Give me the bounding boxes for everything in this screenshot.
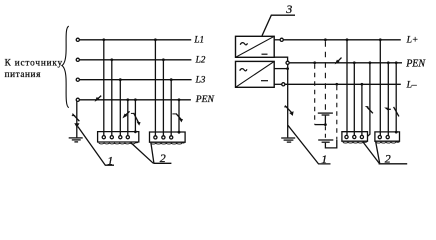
battery midpoint to cell 2 (dashed) [324,126,326,139]
line L1 [80,39,192,41]
junction midpoint [286,67,289,70]
leader from load B to label 2 (right) [376,141,380,163]
converter unit1 AC mark [240,43,247,45]
arrow on load B pin2 wire [384,108,391,111]
arrow on load B PE wire [394,107,399,117]
leader from load A to label 2 (right) [363,142,379,163]
converter unit2 AC mark [240,69,247,71]
junction PEN/battery midpoint [313,61,316,64]
converter unit1 DC mark [262,53,268,55]
wire L1 to load2 pin1 [154,40,156,136]
converter midpoint wire (unit2 plus) [274,68,287,70]
arrow on PEN line (left) [95,96,102,102]
arrow on grounding conductor (right) [284,106,295,116]
loadB pin2 [386,136,389,139]
junction L1/load1 [102,38,105,41]
terminal L1 [76,38,79,41]
load1 pin3 [119,136,122,139]
svg-text:L2: L2 [195,55,206,65]
junction L3/load2 [170,78,173,81]
battery midpoint wire [324,116,326,125]
grounding conductor (right) [287,64,289,137]
battery cell 2 [318,140,333,142]
wire L1 to load1 pin1 [103,40,105,136]
label "К источнику питания" [5,58,63,79]
ground electrode 1 (left) [69,138,83,142]
junction PEN/loadB PE [395,61,398,64]
line L3 [80,79,192,81]
junction load1 enclosure [134,130,137,133]
load2 pin3 [170,136,173,139]
terminal PEN [76,98,79,101]
junction load2 enclosure [178,131,181,134]
junction L+/loadB [379,38,382,41]
svg-text:1: 1 [107,153,113,167]
junction PEN/load1 pin4 [126,98,129,101]
underline of label 2 (left) [153,162,171,164]
ground electrode 1 (right) [281,138,295,142]
junction L2/load2 [162,58,165,61]
loadA pin3 [360,135,363,138]
junction loadB enclosure [395,131,398,134]
arrow on grounding conductor (left) [72,114,80,128]
arrow on load A PE wire [365,106,373,113]
load 2 (exposed conductive part, left box 2) [150,132,186,144]
junction L+/battery [324,38,327,41]
loadA pin1 [345,135,348,138]
junction PEN/loadA PE [369,61,372,64]
svg-text:L1: L1 [193,34,204,44]
junction PEN/load2 PE [178,98,181,101]
junction L-/loadA [361,83,364,86]
load1 pin1 [102,136,105,139]
wire PEN to load A pin2 [353,63,355,136]
load 2 (exposed conductive part, left box 1) [98,132,139,144]
loadB pin1 [378,136,381,139]
junction L+/loadA [346,38,349,41]
junction PEN/load1 PE [134,98,137,101]
junction L3/load1 [119,78,122,81]
svg-text:L3: L3 [195,74,206,84]
load1 pin2 [110,136,113,139]
svg-text:3: 3 [285,2,292,16]
converter 3 unit 2 (AC/DC) [236,61,275,87]
wire L+ to load A pin1 [346,40,348,136]
load1 pin4 [126,136,129,139]
loadA pin2 [353,135,356,138]
wire L3 to load1 pin3 [119,80,121,136]
svg-text:питания: питания [5,69,41,79]
battery negative return wire [325,140,336,148]
terminal L3 [76,78,79,81]
line L2 [80,59,192,61]
wire L- to load A pin3 [361,84,363,135]
line L+ [283,39,401,41]
converter L+ output stub [274,39,280,41]
terminal L+ [280,38,283,41]
load2 pin2 [162,136,165,139]
wire PEN to load1 enclosure [134,100,136,132]
arrow on load1 PE wire [131,113,141,126]
wire PEN to load B enclosure [395,63,397,132]
line L- [285,83,401,85]
battery negative to L- (dashed) [336,86,338,140]
leader from load1 to label 2 (left) [131,143,153,164]
converter midpoint wire (unit1 minus) [274,57,287,61]
junction PEN/loadB [387,61,390,64]
line PEN (left) [80,99,191,101]
junction L-/battery [335,83,338,86]
junction battery midpoint [324,123,327,126]
svg-text:PEN: PEN [405,59,426,70]
battery cell 1 [318,113,333,115]
load2 pin1 [154,136,157,139]
terminal L- [282,83,285,86]
leader to label 1 (right) [288,125,331,164]
converter 3 unit 1 (AC/DC) [236,36,275,57]
leader to label 3 [262,15,295,36]
svg-text:1: 1 [321,152,327,166]
svg-text:PEN: PEN [195,94,215,105]
underline of label 2 (right) [379,163,408,165]
converter unit2 DC mark [261,80,268,82]
arrow on PEN line (right) [335,58,342,65]
battery feed from L+ (dashed) [324,41,326,112]
terminal PEN (right) [286,61,289,64]
load 2 (exposed conductive part, right box A) [342,132,368,143]
wire PEN to load2 enclosure [178,100,180,132]
terminal L2 [76,58,79,61]
junction L1/load2 [154,38,157,41]
wire L2 to load1 pin2 [111,60,113,136]
PEN to battery midpoint (dashed) [314,64,316,124]
junction PEN/loadA [353,61,356,64]
leader to label 1 (left) [78,127,114,166]
wire PEN to load B pin2 [387,63,389,136]
wire PEN to load1 pin4 [127,100,129,136]
svg-text:2: 2 [160,151,166,165]
arrow on load1 pin4 wire [122,111,129,118]
line PEN (right) [289,62,402,64]
load 2 (exposed conductive part, right box B) [375,132,400,143]
grounding conductor (left) [76,101,78,137]
svg-text:2: 2 [385,151,391,165]
svg-text:L+: L+ [406,35,419,46]
wire L2 to load2 pin2 [162,60,164,136]
svg-text:К источнику: К источнику [5,58,63,68]
converter L- output stub [274,83,281,85]
wire L+ to load B pin1 [379,40,381,136]
leader from load2 to label 2 (left) [151,143,154,163]
brace (source side) [62,26,69,107]
junction L2/load1 [110,58,113,61]
battery midpoint elbow wire [315,124,325,126]
arrow on load2 PE wire [172,114,183,123]
wire PEN to load A enclosure [368,63,370,136]
svg-text:L–: L– [406,79,417,90]
wire L3 to load2 pin3 [170,80,172,136]
